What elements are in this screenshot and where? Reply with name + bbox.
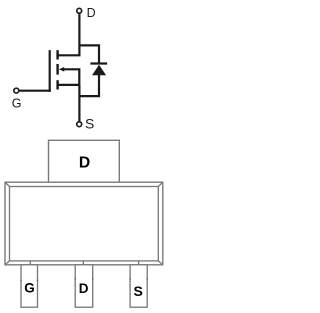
svg-text:D: D bbox=[79, 281, 89, 296]
svg-text:D: D bbox=[87, 6, 96, 20]
drain tick bbox=[56, 50, 58, 59]
wire source vertical bbox=[78, 85, 80, 121]
diode D1 (body diode) bbox=[79, 64, 107, 97]
svg-text:G: G bbox=[24, 280, 35, 295]
corner bevel bottom-right bbox=[158, 261, 163, 265]
package body inner outline bbox=[10, 187, 159, 261]
lead S center tick bbox=[138, 261, 140, 265]
corner bevel top-right bbox=[158, 182, 163, 186]
wire source horizontal bbox=[59, 84, 80, 86]
wire body to source bbox=[63, 69, 80, 85]
svg-text:D: D bbox=[79, 155, 90, 172]
wire diode branch top bbox=[79, 45, 99, 63]
body tick bbox=[56, 64, 58, 75]
package tab (SOT-89 heatsink tab) bbox=[49, 140, 120, 182]
lead G width ticks bbox=[21, 279, 22, 281]
wire gate horizontal bbox=[19, 90, 50, 92]
gate line bbox=[49, 50, 51, 92]
lead D width ticks bbox=[75, 278, 76, 280]
svg-text:S: S bbox=[85, 116, 94, 132]
package body outer outline bbox=[5, 182, 163, 265]
lead D center tick bbox=[82, 261, 84, 265]
svg-text:G: G bbox=[12, 97, 22, 111]
cathode bar bbox=[90, 62, 107, 64]
arrow (body, pointing to gate) bbox=[59, 67, 64, 72]
corner bevel bottom-left bbox=[5, 261, 10, 265]
svg-text:S: S bbox=[134, 283, 143, 299]
transistor Q1 (N-channel MOSFET symbol) bbox=[14, 8, 99, 126]
terminal G circle bbox=[14, 88, 19, 93]
pin 3 lead S bbox=[130, 265, 147, 307]
diode triangle bbox=[92, 65, 106, 76]
terminal S circle bbox=[77, 122, 82, 127]
pin 1 lead G bbox=[21, 265, 38, 307]
wire drain vertical bbox=[59, 14, 80, 55]
lead S width ticks bbox=[130, 278, 131, 280]
source tick bbox=[56, 80, 58, 89]
corner bevel top-left bbox=[5, 182, 10, 186]
pin 2 lead D bbox=[75, 265, 93, 307]
anode wire bbox=[79, 74, 99, 96]
lead G center tick bbox=[29, 261, 31, 265]
terminal D circle bbox=[77, 8, 82, 13]
